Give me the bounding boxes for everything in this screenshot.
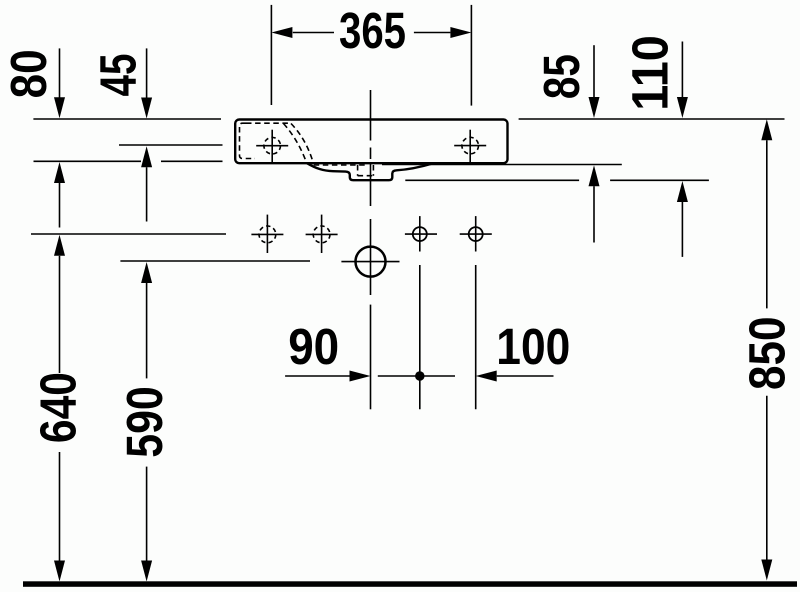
dimension line 365 right segment <box>414 32 451 34</box>
dim 45: shaft above <box>146 48 148 98</box>
dim 80: down arrowhead <box>54 97 65 118</box>
dim 90: right arrowhead at centerline <box>350 371 371 382</box>
dim 590: up arrowhead at top <box>141 262 152 283</box>
right faucet hole cross on basin <box>454 145 486 147</box>
arrowhead 365 right <box>450 27 471 38</box>
arrowhead 365 left <box>271 27 292 38</box>
dim 110: down arrowhead <box>677 97 688 118</box>
reference line at drain center level (590 upper ref) <box>120 260 310 262</box>
measurement dot on 90/100 line <box>415 371 425 381</box>
reference line 80 below top (left part) <box>34 160 142 162</box>
dim 590: down arrowhead at floor <box>141 561 152 582</box>
wall fixing hole 2 dashed circle <box>313 226 330 243</box>
reference line 80 below top (right part) <box>161 160 223 162</box>
dim 80: up arrowhead below <box>54 162 65 183</box>
svg-text:85: 85 <box>533 54 590 99</box>
dim 640: shaft upper <box>59 256 61 373</box>
dim 850: down arrowhead at floor <box>761 560 772 581</box>
hidden chamber top edge <box>246 122 288 124</box>
extension line left for dim 365 <box>270 5 272 105</box>
mounting hole left: circle <box>413 227 427 241</box>
dim 110: tail below <box>681 202 683 257</box>
hidden drain right edge <box>372 165 374 176</box>
hidden inner bowl bottom line <box>314 164 368 166</box>
svg-text:80: 80 <box>0 49 57 98</box>
svg-text:90: 90 <box>288 318 339 375</box>
dim 110: up arrowhead below <box>677 181 688 202</box>
left faucet hole cross on basin <box>256 145 288 147</box>
reference line at faucet hole row (640 upper ref) <box>31 233 226 235</box>
svg-text:850: 850 <box>739 317 796 391</box>
hidden drain left edge <box>357 165 359 176</box>
dim 850: shaft upper <box>766 140 768 308</box>
reference line 110 below top (left part) <box>405 179 579 181</box>
extension line below right mounting hole <box>475 265 477 409</box>
svg-text:365: 365 <box>339 2 406 59</box>
reference line 85 below top <box>382 164 622 166</box>
dim 85: down arrowhead <box>589 97 600 118</box>
svg-text:100: 100 <box>496 318 570 375</box>
dim 100: left arrowhead <box>476 371 497 382</box>
floor line <box>23 581 797 587</box>
basin bowl underside with drain boss <box>307 163 433 180</box>
extension line right for dim 365 <box>470 5 472 106</box>
wall fixing hole 2 (dashed) cross <box>306 233 338 235</box>
dim 110: shaft above <box>681 42 683 98</box>
dim 80: shaft above <box>59 48 61 98</box>
svg-text:590: 590 <box>116 386 173 458</box>
drain outlet circle <box>356 247 386 277</box>
dim 640: up arrowhead at top <box>54 235 65 256</box>
dim 85: tail below <box>593 186 595 242</box>
hidden inner bowl curve outer <box>291 124 314 164</box>
dim 640: shaft lower <box>59 452 61 561</box>
mounting hole left: cross bars <box>405 233 437 235</box>
dim 850: up arrowhead at top <box>761 119 772 140</box>
dim 90: dimension line left of arrow <box>285 375 349 377</box>
left faucet hole dashed circle <box>264 137 281 154</box>
vertical centerline of basin (center line segments) <box>370 90 372 141</box>
dim 85: up arrowhead below <box>589 165 600 186</box>
dim 850: shaft lower <box>766 396 768 560</box>
dim 85: shaft above <box>593 45 595 97</box>
extension line below left mounting hole <box>419 265 421 409</box>
hidden (dashed) overflow chamber left: vertical edge <box>240 123 374 176</box>
dim 45: up arrowhead below <box>141 146 152 167</box>
dim 90/100: middle line through dot <box>378 375 455 377</box>
wall reference line right at basin top level <box>519 118 785 120</box>
mounting hole right: cross bars <box>460 233 492 235</box>
mounting hole right: circle <box>469 227 483 241</box>
dimension line 365 left segment <box>293 32 334 34</box>
dim 590: shaft lower <box>146 467 148 561</box>
dim 80: tail below <box>59 183 61 228</box>
wall fixing hole 1 (dashed) cross <box>251 233 283 235</box>
svg-text:45: 45 <box>89 54 146 97</box>
dim 100: tail right of arrow <box>497 375 554 377</box>
svg-text:640: 640 <box>30 372 87 443</box>
hidden drain bottom edge <box>358 175 374 177</box>
reference line 45 below top <box>119 144 223 146</box>
svg-text:110: 110 <box>621 35 678 111</box>
wall fixing hole 1 dashed circle <box>259 226 276 243</box>
wall reference line left at basin top level <box>33 118 221 120</box>
dim 45: down arrowhead <box>141 98 152 119</box>
hidden inner bowl curve inner <box>284 124 307 163</box>
basin body outline (side elevation) <box>235 120 507 164</box>
dim 640: down arrowhead at floor <box>54 561 65 582</box>
dim 590: shaft upper <box>146 283 148 378</box>
drain outlet horizontal centerline <box>341 261 399 263</box>
right faucet hole dashed circle <box>462 137 479 154</box>
dim 45: tail below <box>146 167 148 221</box>
reference line 110 below top (right part) <box>610 179 709 181</box>
